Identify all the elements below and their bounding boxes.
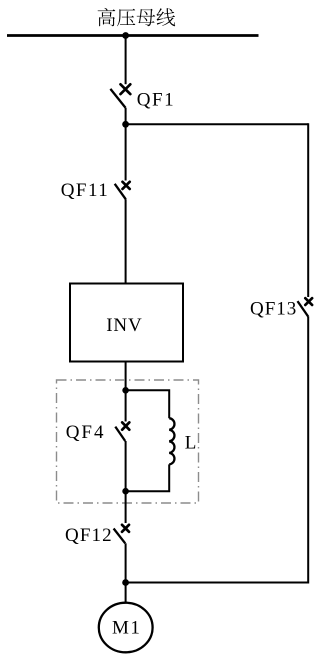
node A: busbar tap junction [122,32,129,39]
breaker QF13 blade [298,301,309,317]
breaker QF4 contact X [122,422,129,429]
svg-text:QF1: QF1 [137,89,175,110]
svg-text:INV: INV [106,315,142,336]
busbar 高压母线 [7,34,259,37]
wire node E to bypass (bottom) [126,582,309,584]
wire bypass right side down to QF13 [307,123,309,297]
wire QF11 to INV box [125,199,127,283]
svg-text:L: L [185,432,197,453]
svg-text:QF12: QF12 [65,525,113,546]
title char gao (高) [98,8,116,26]
title char ya (压) [117,9,135,26]
wire node C to inductor branch (top) [126,390,170,418]
breaker QF4 blade [115,427,125,441]
breaker QF11 blade [115,184,126,200]
wire QF4 to node D [125,441,127,491]
wire busbar to QF1 [125,36,127,85]
title char mu (母) [137,9,156,26]
breaker QF11 contact X [123,182,130,189]
motor M1 circle [99,603,153,653]
node B: bypass tee junction [122,121,129,128]
breaker QF12 contact X [122,525,129,532]
dash-dot enclosure (QF4 and L unit) [57,380,199,503]
breaker QF12 blade [114,529,126,544]
inverter U1 box INV [70,284,183,362]
node E: motor tee junction [122,579,129,586]
wire QF12 to node E [125,543,127,582]
node C: top of QF4/L parallel group [122,387,129,394]
wire QF1 to node B [125,108,127,124]
inductor L coil [169,418,174,464]
wire node E to motor M1 [125,583,127,604]
wire node D to QF12 [125,491,127,523]
wire QF13 down to bottom tee [307,317,309,584]
svg-text:QF11: QF11 [61,180,110,201]
node D: bottom of QF4/L parallel group [122,488,129,495]
svg-text:M1: M1 [112,618,141,639]
wire INV box to node C [125,362,127,391]
wire node B down to QF11 [125,124,127,180]
breaker QF1 blade [110,89,125,108]
wire node B to right (bypass branch) [126,123,309,125]
svg-text:QF4: QF4 [66,422,106,443]
title char xian (线) [157,8,176,26]
breaker QF13 contact X [305,298,312,305]
wire node C to QF4 [125,390,127,421]
breaker QF1 contact X [121,84,131,94]
wire inductor bottom to node D [126,464,170,491]
svg-text:QF13: QF13 [250,298,297,319]
